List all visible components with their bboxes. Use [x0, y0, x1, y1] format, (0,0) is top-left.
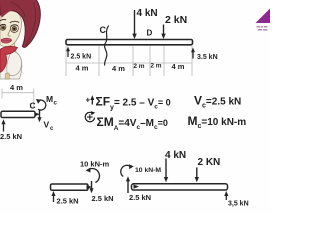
span label 4m third: [172, 62, 185, 71]
cartoon presenter character: [0, 0, 40, 79]
shear arrow down 2.5kN: [89, 181, 93, 193]
fbd reaction arrow 2.5kN: [1, 119, 5, 131]
sign convention up-plus: [86, 95, 95, 104]
svg-text:3,5 kN: 3,5 kN: [228, 201, 249, 208]
reaction arrow up 2.5kN bottom-right: [126, 176, 130, 193]
logo purple triangle: [256, 9, 271, 24]
face: [0, 10, 22, 47]
scarf kerchief: [0, 46, 18, 72]
blouse shading: [6, 54, 7, 73]
force arrow 2kN: [161, 25, 166, 40]
fbd value 2.5kN: [0, 132, 22, 141]
svg-text:ΣFy= 2.5 – Vc= 0: ΣFy= 2.5 – Vc= 0: [96, 95, 171, 112]
moment Mc arc: [36, 99, 46, 110]
label D: [147, 29, 153, 38]
svg-text:M: M: [46, 94, 53, 104]
value 4kN bottom: [165, 150, 186, 161]
reaction arrow 2.5kN left: [66, 47, 70, 58]
value 3.5kN bottom: [228, 201, 249, 208]
hair front fringe: [0, 0, 37, 18]
fbd dimension label 4m: [10, 83, 23, 92]
lips: [1, 38, 11, 43]
value 2.5kN right: [92, 194, 114, 203]
reaction arrow up 3.5kN bottom: [224, 191, 228, 200]
svg-text:c: c: [54, 101, 58, 107]
svg-text:4 m: 4 m: [10, 83, 23, 92]
force arrow 4kN bottom: [164, 159, 168, 183]
svg-text:+: +: [86, 96, 91, 105]
cut squiggle at C: [104, 26, 108, 66]
svg-text:4 kN: 4 kN: [165, 150, 186, 161]
svg-text:4 m: 4 m: [172, 62, 185, 71]
beam segment bottom-right: [132, 184, 228, 190]
dimension ticks: [66, 46, 192, 76]
svg-text:Vc=2.5 kN: Vc=2.5 kN: [194, 94, 241, 110]
svg-text:2.5 kN: 2.5 kN: [92, 194, 114, 203]
result Mc value: [188, 114, 247, 130]
hand skin: [5, 73, 9, 79]
svg-text:C: C: [30, 101, 36, 111]
logo caption text: [257, 26, 268, 30]
span label 2m: [133, 63, 144, 70]
svg-text:ΣMA=4Vc–Mc=0: ΣMA=4Vc–Mc=0: [97, 115, 168, 132]
svg-text:4 m: 4 m: [112, 64, 125, 73]
moment arc bottom-left fbd: [86, 168, 100, 183]
svg-text:10 kN-m: 10 kN-m: [80, 160, 110, 169]
value 2kN bottom: [198, 157, 221, 168]
value 2.5kN left: [57, 197, 79, 206]
fbd label C: [30, 101, 36, 111]
label C: [100, 25, 107, 35]
svg-text:2 m: 2 m: [150, 63, 161, 70]
blouse: [0, 50, 22, 79]
force arrow 4kN: [132, 10, 137, 39]
svg-text:3.5 kN: 3.5 kN: [197, 54, 218, 61]
nose: [8, 30, 11, 37]
svg-text:2.5 kN: 2.5 kN: [0, 132, 22, 141]
svg-text:V: V: [44, 120, 50, 130]
svg-text:c: c: [50, 126, 54, 132]
result Vc value: [194, 94, 241, 110]
span label 4m second: [112, 64, 125, 73]
reaction arrow 3.5kN right: [191, 48, 195, 59]
svg-text:Mc=10 kN-m: Mc=10 kN-m: [188, 114, 247, 130]
sleeve puff: [7, 51, 22, 76]
svg-text:10 kN-M: 10 kN-M: [135, 167, 161, 174]
span label 4m: [76, 64, 89, 73]
svg-text:C: C: [100, 25, 107, 35]
right eyebrow: [10, 21, 19, 22]
svg-text:2 kN: 2 kN: [165, 14, 187, 26]
svg-text:2.5 kN: 2.5 kN: [57, 197, 79, 206]
svg-text:4 m: 4 m: [76, 64, 89, 73]
svg-text:2.5 kN: 2.5 kN: [129, 193, 151, 202]
beam: [66, 40, 193, 45]
fbd beam segment: [1, 111, 40, 117]
value 2.5kN left: [71, 54, 92, 61]
reaction arrow up 2.5kN: [51, 191, 55, 202]
fbd dimension line 4m: [2, 89, 34, 109]
svg-text:2 m: 2 m: [133, 63, 144, 70]
left eye: [0, 24, 6, 30]
label Vc: [44, 120, 55, 133]
shear Vc arrow: [37, 111, 41, 123]
label Mc: [46, 94, 58, 107]
moment arc bottom-right fbd: [121, 164, 134, 176]
dimension baseline: [66, 62, 193, 64]
value 2kN: [165, 14, 187, 26]
value 10kN-m bottom-right: [135, 167, 161, 174]
value 4kN: [137, 8, 158, 19]
force arrow 2kN bottom: [195, 168, 199, 183]
span label 2m second: [150, 63, 161, 70]
left eyebrow: [0, 20, 6, 21]
sign convention ccw-plus: [85, 111, 95, 122]
svg-text:2.5 kN: 2.5 kN: [71, 54, 92, 61]
neck: [7, 41, 17, 52]
hair: [0, 0, 40, 47]
value 10kN-m: [80, 160, 110, 169]
value 2.5kN bottom-right: [129, 193, 151, 202]
svg-text:4 kN: 4 kN: [137, 8, 158, 19]
hair strand lines: [10, 2, 36, 45]
beam segment bottom-left: [51, 184, 93, 190]
value 3.5kN right: [197, 54, 218, 61]
equation sum MA: [97, 115, 168, 132]
right eye: [10, 25, 18, 33]
equation sum Fy: [96, 95, 171, 112]
svg-text:D: D: [147, 29, 153, 38]
svg-text:2 KN: 2 KN: [198, 157, 221, 168]
